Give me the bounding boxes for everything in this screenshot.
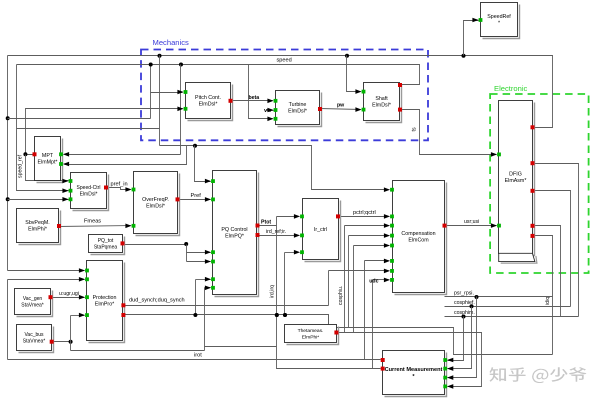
wire x276-v xyxy=(275,217,381,369)
svg-text:ElmAsm*: ElmAsm* xyxy=(505,178,527,184)
wire y118-row xyxy=(8,118,151,120)
svg-text:StaVmea*: StaVmea* xyxy=(23,338,46,344)
svg-text:ElmDsl*: ElmDsl* xyxy=(288,109,307,115)
wire left-vertical-b xyxy=(7,280,9,360)
block Vac_bus StaVmea xyxy=(17,325,54,353)
wire cm-in1 xyxy=(448,317,464,361)
wire x353-v xyxy=(353,246,355,333)
wire x348-v xyxy=(348,236,350,328)
svg-text:ElmDsl*: ElmDsl* xyxy=(146,204,165,210)
wire prot-in4 xyxy=(71,315,85,317)
svg-text:StaPqmea: StaPqmea xyxy=(94,244,118,250)
svg-text:StaVmea*: StaVmea* xyxy=(21,302,44,308)
wire pw-wire xyxy=(321,109,361,110)
svg-text:speed: speed xyxy=(277,58,292,64)
wire pctrl xyxy=(339,216,389,218)
wire pitch-in1 xyxy=(151,92,183,94)
wire pqtot xyxy=(123,242,189,246)
wire theta-row xyxy=(338,333,482,387)
wire x16-vertical xyxy=(17,65,69,191)
svg-text:OverFreqP.: OverFreqP. xyxy=(142,197,169,203)
svg-text:Speed-Ctrl: Speed-Ctrl xyxy=(77,185,101,191)
svg-text:Compensation: Compensation xyxy=(401,231,435,237)
wire speedctrl-in3 xyxy=(8,199,69,201)
svg-text:cosphiu.: cosphiu. xyxy=(338,286,344,305)
wire y129-row xyxy=(17,128,160,130)
svg-text:PQ_tot: PQ_tot xyxy=(98,238,114,244)
svg-text:udc: udc xyxy=(369,278,378,284)
block Speed-Ctrl ElmDsl xyxy=(71,173,109,211)
svg-text:ird_ref;ir.: ird_ref;ir. xyxy=(266,229,286,235)
wire comp-in4 xyxy=(349,235,389,237)
wire speedref-down xyxy=(26,155,69,181)
wire pq-in1 xyxy=(195,146,211,182)
wire x159-v xyxy=(159,56,161,146)
DFIG bottom face xyxy=(499,253,537,263)
wire x204-v xyxy=(204,288,206,351)
wire cm-in3 xyxy=(448,297,477,378)
wire fmeas xyxy=(59,226,131,227)
svg-text:Pitch Cont.: Pitch Cont. xyxy=(195,95,221,101)
svg-text:psr_rpsi.: psr_rpsi. xyxy=(454,290,474,296)
svg-text:*: * xyxy=(498,21,500,27)
wire vacbus xyxy=(52,340,73,344)
wire left-vertical-a xyxy=(6,56,10,271)
wire x181-vertical xyxy=(180,65,182,155)
wire turbine-in3 xyxy=(249,65,273,119)
svg-text:Shaft: Shaft xyxy=(375,96,388,102)
svg-text:Ir_ctrl: Ir_ctrl xyxy=(314,227,327,233)
wire dud xyxy=(124,305,329,307)
wire prot-in2 xyxy=(8,279,85,281)
svg-text:PQ Control: PQ Control xyxy=(221,227,247,233)
svg-text:usr;usi: usr;usi xyxy=(464,219,479,225)
block Protection ElmPro xyxy=(87,261,125,343)
svg-text:Ptot: Ptot xyxy=(261,220,271,226)
watermark xyxy=(490,367,587,383)
svg-text:Turbine: Turbine xyxy=(289,102,307,108)
Electronic frame xyxy=(490,94,588,273)
svg-text:ElmPhi*: ElmPhi* xyxy=(302,334,319,340)
svg-text:ElmMpt*: ElmMpt* xyxy=(37,160,57,166)
svg-text:Thetameas.: Thetameas. xyxy=(298,328,324,334)
wire x328-v xyxy=(328,271,330,306)
block Current Measurement xyxy=(383,351,447,397)
wire mpt-in1 xyxy=(65,154,181,156)
svg-text:ird,irq: ird,irq xyxy=(270,285,276,298)
wire beta-wire xyxy=(231,100,273,102)
wire shaft-in1-branch xyxy=(347,56,361,92)
svg-text:cosphief.: cosphief. xyxy=(454,300,475,306)
svg-text:ElmPQ*: ElmPQ* xyxy=(225,234,244,240)
wire usrusi xyxy=(445,225,497,227)
wire x364-v xyxy=(364,261,366,360)
wire irctrl-in1 xyxy=(277,216,299,218)
wire cosphief xyxy=(445,304,571,308)
wire pq-in3 xyxy=(187,252,211,254)
block PQ_tot StaPqmea xyxy=(89,235,125,255)
svg-text:idiq: idiq xyxy=(545,297,551,305)
svg-text:DFIG: DFIG xyxy=(509,172,522,178)
svg-text:pref_in: pref_in xyxy=(111,182,128,188)
svg-text:ElmCom: ElmCom xyxy=(408,238,429,244)
svg-text:irot: irot xyxy=(194,353,202,359)
block DFIG ElmAsm xyxy=(499,101,535,256)
svg-text:dud_synch;duq_synch: dud_synch;duq_synch xyxy=(129,297,185,303)
wire vw-wire xyxy=(267,110,274,112)
block PQ Control ElmPQ xyxy=(213,171,259,297)
block OverFreqP ElmDsl xyxy=(134,172,180,236)
svg-text:ElmDsl*: ElmDsl* xyxy=(372,103,391,109)
svg-text:SbvPeqM.: SbvPeqM. xyxy=(25,220,49,226)
svg-text:beta: beta xyxy=(249,95,260,101)
block MPT ElmMpt xyxy=(35,137,63,183)
svg-text:pw: pw xyxy=(337,103,345,109)
wire speed-net-top xyxy=(8,54,553,128)
wire irot xyxy=(8,359,381,361)
svg-text:ts: ts xyxy=(412,127,418,131)
block Compensation ElmCom xyxy=(393,181,447,295)
svg-text:u:ugr,ugi: u:ugr,ugi xyxy=(59,291,79,297)
wire theta-top xyxy=(328,315,330,325)
wire vacgen xyxy=(51,297,85,299)
wire x70-v xyxy=(70,316,72,351)
wire ts-net xyxy=(401,110,497,155)
svg-text:Vac_bus: Vac_bus xyxy=(24,332,44,338)
wire x344-v xyxy=(344,226,346,333)
wire pref xyxy=(178,199,211,201)
wire y346-row xyxy=(205,346,277,348)
wire cosphim xyxy=(445,315,579,319)
wire comp-in6 xyxy=(365,260,389,262)
block Shaft ElmDsl xyxy=(364,83,402,123)
svg-text:SpeedRef: SpeedRef xyxy=(487,14,511,20)
wire speed-wire xyxy=(17,63,420,85)
wire dfig-p5 xyxy=(533,236,553,355)
wire prot-in1 xyxy=(8,270,85,272)
wire x285-v xyxy=(283,253,287,318)
svg-text:ElmPro*: ElmPro* xyxy=(95,302,114,308)
svg-text:Mechanics: Mechanics xyxy=(153,38,189,47)
svg-text:pctrl;qctrl: pctrl;qctrl xyxy=(353,210,376,216)
wire speedref-branch xyxy=(464,21,479,56)
svg-text:Electronic: Electronic xyxy=(494,84,528,93)
block Thetameas ElmPhi xyxy=(285,325,339,345)
wire psr xyxy=(445,295,553,299)
svg-text:ElmDsl*: ElmDsl* xyxy=(199,102,218,108)
block SbvPeqM ElmPhi xyxy=(17,209,61,245)
wire x372-v xyxy=(372,280,374,369)
wire pq-in6 xyxy=(205,287,211,289)
wire pq-in4 xyxy=(187,261,211,263)
wire x150-vertical xyxy=(150,65,152,119)
wire dfig-p4 xyxy=(533,226,561,317)
wire pq-in5 xyxy=(196,279,211,281)
wire mpt-in2 xyxy=(65,146,187,165)
svg-text:Current Measurement: Current Measurement xyxy=(385,367,443,373)
svg-text:ElmPhi*: ElmPhi* xyxy=(28,227,47,233)
svg-text:Pref: Pref xyxy=(191,193,202,199)
Mechanics frame xyxy=(141,50,428,141)
block Vac_gen StaVmea xyxy=(15,289,53,317)
wire pref_in xyxy=(107,188,131,190)
svg-text:Protection: Protection xyxy=(93,295,117,301)
wire speedref-net xyxy=(23,109,182,157)
wire comp-in7 xyxy=(329,270,389,272)
wire y145-net xyxy=(160,144,389,190)
block SpeedRef xyxy=(481,3,520,39)
wire cm-in2 xyxy=(448,307,472,369)
block Turbine ElmDsl xyxy=(276,91,322,127)
wire comp-in8 xyxy=(373,279,389,281)
wire dfig-p3 xyxy=(533,191,571,307)
wire ptot xyxy=(258,225,277,227)
block Pitch Cont. ElmDsl xyxy=(186,83,233,121)
svg-text:Fmeas: Fmeas xyxy=(84,219,101,225)
wire prot-out2 xyxy=(124,313,553,355)
wire dfig-p2 xyxy=(533,164,579,317)
wire comp-in5 xyxy=(354,245,389,247)
svg-text:ElmDsl*: ElmDsl* xyxy=(80,191,98,197)
svg-text:speed_ref: speed_ref xyxy=(18,154,24,178)
block Ir_ctrl xyxy=(303,199,341,262)
wire irdref xyxy=(258,235,299,237)
svg-text:Vac_gen: Vac_gen xyxy=(23,296,43,302)
svg-text:MPT: MPT xyxy=(42,153,54,159)
wire x195-v xyxy=(195,280,197,315)
wire y350-row xyxy=(71,350,205,352)
wire irctrl-in3 xyxy=(285,252,299,254)
wire x186-v xyxy=(186,245,188,262)
wire comp-in3 xyxy=(345,225,389,227)
